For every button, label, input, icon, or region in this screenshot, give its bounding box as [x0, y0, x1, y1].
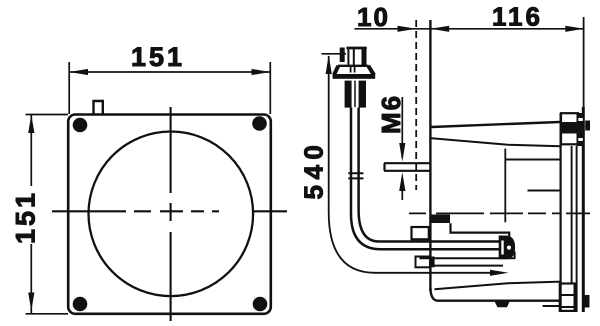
- top bolt inner band: [561, 122, 578, 134]
- housing top contour: [432, 122, 560, 127]
- bottom bolt inner lines: [560, 295, 577, 307]
- dim 116 right extension line: [583, 17, 585, 110]
- back plate inner line 2: [576, 146, 578, 283]
- clamp box lower: [416, 257, 431, 268]
- bracket foot end tie: [514, 252, 516, 260]
- dim 540: end arrow at cable gland: [490, 270, 509, 276]
- strain relief center line: [354, 81, 356, 107]
- cable left line down with bend: [351, 108, 500, 250]
- dim 151 top: right arrow: [252, 69, 271, 75]
- bracket profile: [451, 223, 510, 239]
- bottom bolt nut column: [574, 284, 578, 311]
- clamp block left: [412, 227, 429, 239]
- dim 116 left arrow: [431, 26, 450, 32]
- dim line 10 and 116: [355, 28, 585, 30]
- dim 540: line with curve following cable: [329, 56, 493, 273]
- svg-text:151: 151: [131, 42, 185, 72]
- dim 151 left: extension lines: [26, 115, 69, 314]
- dim 10 arrow: [398, 26, 417, 32]
- corner screw top-right: [252, 116, 267, 131]
- pivot clamp block: [432, 215, 451, 224]
- connector boot inner lines: [351, 66, 355, 73]
- top bolt nut column: [577, 113, 584, 146]
- dim 151 top: extension lines: [69, 62, 270, 114]
- strain relief rib right: [359, 81, 366, 108]
- top tab on housing: [94, 101, 103, 114]
- connector pin mid legs: [348, 48, 353, 66]
- svg-text:M6: M6: [376, 94, 406, 134]
- dim 151 top: left arrow: [69, 69, 88, 75]
- M6 leader line: [401, 97, 403, 158]
- connector boot left side: [334, 66, 338, 75]
- corner screw bottom-left: [73, 297, 88, 312]
- side view: connector top reference line: [322, 53, 347, 55]
- drain nub: [494, 301, 510, 308]
- strain relief rib left: [345, 81, 352, 108]
- svg-text:10: 10: [357, 2, 390, 32]
- hidden line (stud axis plane): [415, 20, 417, 190]
- mounting stud M6: [384, 163, 431, 171]
- side view centerline: [409, 212, 590, 214]
- bracket foot upper line: [420, 257, 515, 259]
- dim 151 left: bottom arrow: [28, 293, 34, 312]
- back plate rear edge: [582, 107, 585, 312]
- svg-text:151: 151: [11, 190, 41, 244]
- back plate front edge: [559, 113, 561, 310]
- top bolt right tab: [585, 121, 590, 131]
- dim 151 left: dimension line: [30, 115, 32, 314]
- cable collar: [348, 173, 363, 178]
- lens circle: [89, 132, 254, 297]
- top bolt nut slits: [578, 120, 583, 140]
- connector boot bottom band: [333, 74, 376, 79]
- connector boot top: [338, 65, 369, 67]
- cable right line down with bend: [359, 108, 500, 242]
- bottom step line: [543, 305, 561, 307]
- bulb axis vertical line: [504, 149, 506, 223]
- corner screw top-left: [73, 118, 88, 133]
- housing inner top contour: [432, 138, 562, 146]
- dim 151 top: dimension line: [69, 71, 270, 73]
- vertical centerline: [170, 107, 172, 321]
- M6 arrow tail: [401, 188, 403, 200]
- back plate inner line 1: [571, 146, 573, 283]
- dim 540: top arrow: [326, 55, 332, 74]
- bracket foot lower line: [431, 265, 503, 267]
- dim 116 right arrow: [565, 26, 584, 32]
- dim 151 left: top arrow: [28, 115, 34, 134]
- corner screw bottom-right: [253, 297, 268, 312]
- top adjuster bolt head: [561, 113, 578, 144]
- connector pin left: [340, 48, 345, 63]
- front view: square housing outline: [68, 115, 271, 314]
- svg-text:540: 540: [299, 140, 329, 200]
- cable gland at housing: [500, 237, 514, 258]
- clamp screw bar: [430, 257, 435, 268]
- horizontal centerline: [52, 210, 287, 212]
- housing bottom front corner: [430, 288, 438, 301]
- mounting face line: [429, 20, 431, 291]
- reflector neck top line: [505, 159, 560, 161]
- cable gland nipple: [506, 245, 512, 251]
- svg-text:116: 116: [492, 2, 543, 32]
- reflector neck bottom line: [528, 190, 561, 192]
- housing bottom edge: [437, 300, 559, 302]
- text 151 left backing: [13, 186, 36, 244]
- bottom bolt right tab: [583, 295, 590, 308]
- M6 arrow down: [399, 143, 405, 162]
- connector boot right side: [368, 66, 374, 75]
- bottom adjuster bolt head: [560, 284, 577, 311]
- M6 arrow up: [399, 172, 405, 191]
- connector pin right: [362, 48, 367, 66]
- cable gland inner slit: [501, 241, 503, 255]
- connector pins bar: [347, 47, 367, 50]
- housing inner bottom contour: [435, 282, 562, 290]
